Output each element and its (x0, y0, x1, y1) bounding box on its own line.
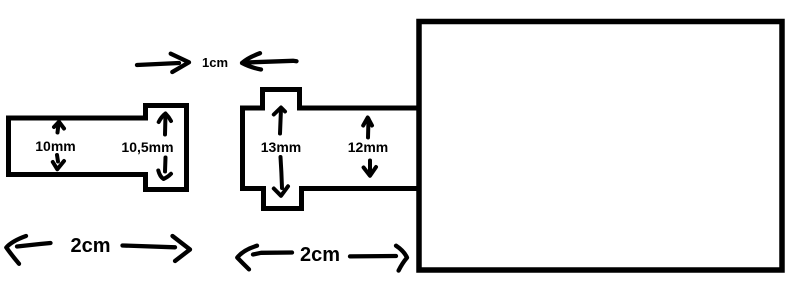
left-pointing arrow (right 2cm, left side) (237, 246, 292, 270)
middle part outline (cross-shaped plug joined to large rectangle) (243, 90, 420, 209)
svg-text:2cm: 2cm (70, 235, 110, 257)
large rectangle body (419, 22, 782, 271)
down arrow (12mm) (364, 161, 376, 176)
svg-text:10mm: 10mm (35, 138, 75, 154)
down arrow (10,5mm) (158, 158, 171, 180)
svg-text:10,5mm: 10,5mm (121, 139, 173, 155)
right-pointing arrow (left 2cm, right side) (123, 236, 191, 261)
svg-text:2cm: 2cm (300, 244, 340, 266)
small up arrow (10mm) (54, 122, 64, 133)
svg-text:13mm: 13mm (261, 139, 301, 155)
svg-text:1cm: 1cm (202, 55, 228, 70)
left part outline (bar with taller right end) (9, 106, 187, 190)
up arrow (12mm) (363, 118, 372, 138)
right-pointing arrow (left of 1cm) (137, 54, 189, 72)
right-pointing arrow (right 2cm, right side) (350, 246, 407, 271)
svg-text:12mm: 12mm (348, 139, 388, 155)
up arrow (10,5mm) (159, 114, 171, 135)
up arrow (13mm) (274, 108, 285, 134)
small down arrow (10mm) (53, 155, 64, 169)
down arrow (13mm) (274, 157, 288, 196)
left-pointing arrow (left 2cm, left side) (6, 236, 50, 264)
left-pointing arrow (right of 1cm) (242, 53, 297, 69)
